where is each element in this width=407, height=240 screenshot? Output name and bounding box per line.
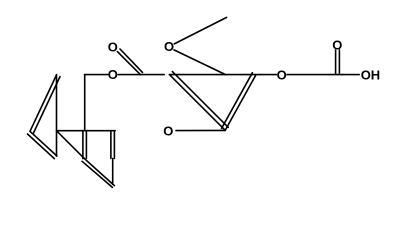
methoxy O up line (methyl) (174, 17, 226, 44)
double bond A=B (30, 75, 60, 133)
left double vertical pair (83, 131, 87, 159)
wire ester O through carbonyl C (118, 74, 164, 76)
apex vertical bond A-C (56, 75, 58, 157)
diagonal bond D1 (57, 131, 85, 159)
svg-text:O: O (163, 124, 173, 139)
double bond E=F diagonal (82, 159, 114, 188)
svg-text:O: O (108, 40, 118, 55)
bottom O bond to V (176, 129, 225, 131)
svg-text:O: O (277, 67, 287, 82)
carbonyl C=O double bond (117, 49, 142, 75)
svg-text:O: O (108, 67, 118, 82)
right double vertical pair (111, 131, 115, 159)
svg-text:O: O (332, 38, 342, 53)
wire CH2 corner vertical (84, 75, 86, 131)
bond O5 through carbonate C to OH (287, 74, 359, 76)
horizontal bond row at y=131 (57, 130, 116, 132)
double bond B=C (28, 131, 57, 158)
svg-text:O: O (164, 39, 174, 54)
methoxy O down line to ring (174, 50, 225, 75)
svg-text:OH: OH (361, 67, 381, 82)
single vertical to bottom tip (112, 158, 114, 184)
double bond V=R diagonal (222, 73, 256, 131)
double bond L=V diagonal (169, 72, 228, 131)
wire CH2 corner horizontal to ester O (85, 74, 108, 76)
top edge of central ring (169, 74, 276, 76)
carbonate C=O double bond vertical (336, 50, 340, 74)
